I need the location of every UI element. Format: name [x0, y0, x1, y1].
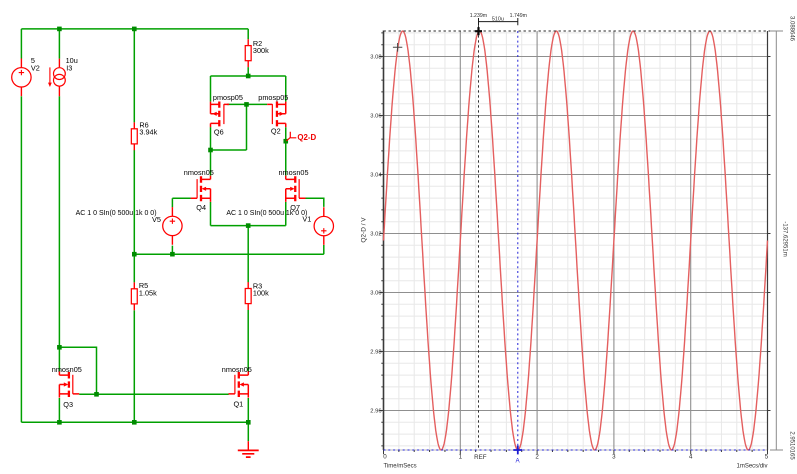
svg-text:510u: 510u — [492, 17, 504, 23]
chart: REF cursor horizontal dashed line — [384, 30, 771, 32]
svg-text:3.94k: 3.94k — [139, 128, 157, 137]
svg-text:3.088646: 3.088646 — [789, 16, 795, 42]
svg-text:nmosn05: nmosn05 — [52, 365, 82, 374]
chart: cursor A cross marker (blue) — [513, 446, 522, 455]
svg-text:3.02: 3.02 — [370, 232, 381, 238]
svg-text:Q1: Q1 — [234, 399, 244, 408]
wire V5 bottom wire — [171, 246, 173, 255]
svg-text:2.98: 2.98 — [370, 350, 381, 356]
svg-text:V1: V1 — [302, 215, 311, 224]
svg-text:pmosp05: pmosp05 — [213, 93, 243, 102]
chart: cursor delta dimension line with end ticks — [479, 18, 518, 25]
wire Q6 drain to Q4 drain — [210, 127, 212, 176]
chart: major gridlines — [384, 31, 768, 450]
node I3 / Q3 drain — [57, 345, 62, 350]
wire VDD top rail — [21, 28, 248, 30]
voltage source V1 — [314, 216, 333, 235]
svg-text:4: 4 — [689, 453, 693, 460]
svg-text:Q6: Q6 — [214, 127, 224, 136]
svg-text:V2: V2 — [31, 63, 40, 72]
svg-text:2: 2 — [535, 453, 539, 460]
transistor Q6 (pmosp05) — [211, 102, 230, 128]
probe marker Q2-D — [286, 132, 296, 141]
svg-text:3.08: 3.08 — [370, 55, 381, 61]
svg-text:pmosp05: pmosp05 — [258, 93, 288, 102]
chart: sine waveform trace Q2-D — [384, 31, 768, 450]
svg-text:3.06: 3.06 — [370, 114, 381, 120]
svg-text:nmosn05: nmosn05 — [184, 168, 214, 177]
node ground rail / Q1 — [246, 420, 251, 425]
wire Q6 gate-drain tie — [211, 104, 247, 150]
svg-text:3.00: 3.00 — [370, 291, 381, 297]
transistor Q7 (nmosn05) — [286, 176, 306, 202]
voltage source V5 — [163, 216, 182, 235]
wire Q3 drain-gate tie — [59, 347, 96, 394]
transistor Q4 (nmosn05) — [191, 176, 211, 202]
resistor R2 — [247, 39, 249, 67]
chart: bottom axis — [384, 449, 768, 451]
svg-text:AC 1 0 SIn(0 500u 1k 0 0): AC 1 0 SIn(0 500u 1k 0 0) — [76, 210, 157, 217]
svg-text:5: 5 — [765, 453, 769, 460]
wire R2 wires — [247, 29, 249, 76]
svg-text:Q3: Q3 — [63, 400, 73, 409]
svg-text:2.9510165: 2.9510165 — [789, 431, 795, 460]
wire ground stub — [247, 422, 249, 441]
node tail junction — [246, 223, 251, 228]
ground — [247, 441, 249, 450]
node top rail / I3 — [57, 27, 62, 32]
chart: cursor A horizontal dashed line (blue) — [384, 449, 768, 451]
wire I3 branch vertical — [58, 29, 60, 371]
node Q6 drain-gate — [208, 148, 213, 153]
svg-text:I3: I3 — [66, 63, 72, 72]
chart: axis ticks — [379, 33, 770, 454]
svg-text:1.05k: 1.05k — [139, 288, 157, 297]
svg-text:-137.62951m: -137.62951m — [782, 221, 788, 256]
node top rail / R6 — [132, 27, 137, 32]
chart: y-axis — [383, 31, 385, 451]
transistor Q2 (pmosp05) — [267, 102, 286, 128]
node R2 / PMOS sources — [246, 74, 251, 79]
svg-text:REF: REF — [474, 454, 487, 461]
svg-text:V5: V5 — [152, 215, 161, 224]
wire Q3 source to ground rail — [58, 398, 60, 422]
transistor Q1 (nmosn05) — [229, 371, 249, 397]
node ground rail / Q3 — [57, 420, 62, 425]
wire V1 bottom wire — [323, 245, 325, 254]
wire V5 top wire — [172, 198, 191, 207]
wire V1 top wire — [304, 198, 323, 207]
svg-text:3.04: 3.04 — [370, 173, 382, 179]
resistor R3 — [247, 282, 249, 310]
chart: REF cursor cross marker — [475, 27, 482, 35]
chart: right border — [767, 31, 769, 450]
voltage source V2 — [12, 68, 31, 87]
svg-text:1: 1 — [459, 453, 463, 460]
node Q3 gate tie — [94, 392, 99, 397]
svg-text:3: 3 — [612, 453, 616, 460]
svg-text:Q2-D: Q2-D — [297, 133, 316, 142]
svg-text:Q2-D / V: Q2-D / V — [361, 217, 368, 243]
node mid rail / V5 — [170, 252, 175, 257]
svg-text:1.749m: 1.749m — [510, 13, 527, 19]
svg-text:1.239m: 1.239m — [470, 13, 487, 19]
node mid rail / R6-R5 — [132, 252, 137, 257]
chart: small crosshair marker on first peak — [393, 43, 402, 52]
resistor R6 — [133, 122, 135, 150]
node Q2-D probe point — [283, 139, 288, 144]
svg-text:Q2: Q2 — [271, 126, 281, 135]
svg-text:nmosn05: nmosn05 — [222, 365, 252, 374]
node ground rail / R5 — [132, 420, 137, 425]
wire mid rail V5-/V1- — [134, 253, 323, 255]
chart: cursor A vertical dashed line (blue) — [517, 31, 519, 450]
wire bottom ground rail — [21, 421, 248, 423]
wire PMOS gate rail — [227, 103, 267, 105]
current source I3 — [54, 68, 66, 80]
svg-text:1mSecs/div: 1mSecs/div — [736, 463, 767, 469]
wire Q2 drain to Q7 drain (node Q2-D) — [285, 127, 287, 175]
svg-text:Q4: Q4 — [196, 203, 206, 212]
resistor R5 — [133, 282, 135, 310]
svg-text:100k: 100k — [253, 289, 269, 298]
wire Q1 source to ground rail — [247, 398, 249, 422]
node PMOS gate tie — [244, 102, 249, 107]
wire tail to R3 — [247, 226, 249, 283]
svg-text:nmosn05: nmosn05 — [279, 168, 309, 177]
svg-text:Time/mSecs: Time/mSecs — [384, 463, 417, 469]
svg-text:0: 0 — [383, 453, 387, 460]
svg-text:300k: 300k — [253, 46, 269, 55]
gate leads red for V5/V1/Q3-Q1 rail are part of transistor symbols — [191, 197, 305, 199]
wire diff pair tail rail — [211, 202, 286, 226]
wire R6/R5 branch vertical — [133, 29, 135, 422]
wire R3 to Q1 drain — [247, 310, 249, 371]
wire current mirror gate rail Q3-Q1 — [79, 393, 229, 395]
wire PMOS source rail — [211, 76, 286, 102]
transistor Q3 (nmosn05) — [59, 371, 79, 397]
chart: REF cursor vertical dashed line — [478, 25, 480, 450]
wire V2 branch vertical — [20, 29, 22, 422]
chart: right-side cursor range bracket — [770, 31, 783, 450]
svg-text:2.96: 2.96 — [370, 409, 381, 415]
chart: minor gridlines — [384, 31, 768, 450]
svg-text:AC 1 0 SIn(0 500u 1k 0 0): AC 1 0 SIn(0 500u 1k 0 0) — [226, 210, 307, 217]
